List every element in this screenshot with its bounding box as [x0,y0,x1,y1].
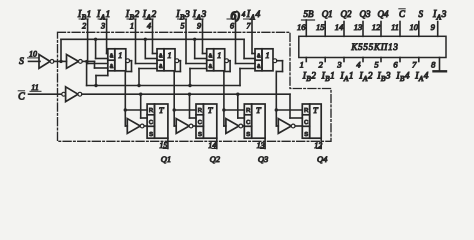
wire C input [29,93,62,95]
wire S branch ch1 [94,71,108,87]
svg-text:1: 1 [217,50,221,60]
RS latch DD2.4 [302,104,321,138]
svg-text:R: R [149,108,153,114]
label Q2 [341,9,352,19]
wire R stub ch4 [276,109,302,111]
wire Y output zigzag ch3 [224,61,230,110]
pin 10 number [410,22,419,32]
RS latch DD2.2 [196,104,217,138]
label IА4 bottom [414,71,428,83]
svg-text:R: R [198,108,202,114]
junction S-bar [59,60,62,63]
label IВ2 [125,9,140,21]
wire S input stub ch1 [144,125,147,127]
svg-text:&: & [209,53,213,59]
IC boundary dash-dot frame [58,32,332,141]
label Q2 [210,154,221,164]
svg-text:3: 3 [336,60,341,70]
svg-text:C: C [18,92,25,103]
pin 14 number [208,141,216,150]
svg-text:1: 1 [118,50,122,60]
svg-text:14: 14 [208,141,216,150]
pin 9 number [197,21,201,30]
svg-text:&: & [110,53,114,59]
svg-text:&: & [159,64,163,70]
svg-text:15: 15 [159,141,167,150]
input C-bar label [18,91,25,103]
wire S branch ch2 [137,69,157,88]
pin 16 number [297,22,306,32]
pin 15 number [316,22,325,32]
wire S-bar node [54,60,67,62]
svg-text:C: C [304,120,308,126]
wire Q1 output to pin 15 [163,138,168,148]
pin 13 number [257,141,265,150]
svg-text:&: & [159,53,163,59]
wire bus S (H2) y=85.5 [87,85,240,87]
svg-text:8: 8 [431,60,436,70]
svg-text:C: C [149,120,153,126]
svg-text:4: 4 [242,11,246,19]
pin 7 number [247,21,252,30]
AOI gate DD1.4 [255,49,277,71]
svg-text:C: C [399,9,406,19]
wire Q3 output to pin 13 [260,138,265,148]
svg-text:S: S [19,57,24,67]
wire C branch ch1 [139,93,147,119]
inverter S first [39,55,54,69]
svg-text:S: S [198,132,202,138]
pin 10 number [28,50,39,59]
pin 12 number [372,22,381,32]
pin 3 number [336,60,341,70]
input line pin 4 [144,19,157,54]
label IВ3 bottom [376,71,390,83]
svg-text:Q4: Q4 [317,154,328,164]
svg-text:R: R [246,108,250,114]
pin 5 number [374,60,378,70]
wire inverter feed ch1 [125,110,127,126]
svg-text:&: & [110,64,114,70]
package pin 13 lead [362,22,364,37]
svg-text:5: 5 [181,21,185,30]
svg-text:16: 16 [297,22,306,32]
package pin 7 lead [418,58,420,62]
wire C branch ch3 [236,93,244,119]
wire S branch ch4 [240,69,255,86]
label IВ3 [175,9,190,21]
wire S input stub ch4 [295,125,302,127]
package pin 3 lead [343,58,345,62]
wire S input stub ch2 [193,125,196,127]
svg-text:1: 1 [265,50,269,60]
wire R stub ch3 [224,109,244,111]
pin 4 number [147,21,151,30]
wire inverter feed ch3 [224,110,226,126]
AOI gate DD1.1 [108,49,130,71]
label Q1 [322,9,333,19]
junction Y/R ch1 [124,108,127,111]
svg-text:9: 9 [197,21,201,30]
wire inverter feed ch4 [276,110,278,126]
pin 2 number [319,60,324,70]
label IВ1 [77,9,91,21]
package pin 5 lead [380,58,382,62]
svg-text:5: 5 [374,60,378,70]
svg-text:3: 3 [100,21,105,30]
svg-text:Q3: Q3 [258,154,268,164]
label IВ2 bottom [302,71,316,83]
figure label b) [231,9,246,23]
wire S-bar branch ch2 [144,38,157,59]
RS latch DD2.1 [147,104,168,138]
wire S-bar branch ch1 [94,38,108,59]
svg-text:S: S [419,9,424,19]
svg-text:S: S [246,132,250,138]
svg-text:2: 2 [82,21,86,30]
package pin 12 lead [380,22,382,37]
input line pin 1 [127,19,157,64]
inverter ch4 [278,119,295,134]
package pin 11 lead [399,22,401,37]
svg-text:&: & [257,53,261,59]
svg-text:4: 4 [147,21,151,30]
svg-text:Q3: Q3 [360,9,371,19]
wire Q2 output to pin 14 [212,138,217,148]
pin 2 number [82,21,86,30]
svg-text:б): б) [231,9,241,23]
svg-text:5В: 5В [304,9,315,19]
junction Y/R ch4 [275,108,278,111]
wire Y output zigzag ch2 [174,61,180,110]
wire Y output zigzag ch1 [125,61,131,110]
inverter ch1 [127,119,144,134]
svg-text:10: 10 [29,50,37,59]
wire R stub ch1 [125,109,147,111]
label IА3 [192,9,207,21]
wire C branch ch2 [188,93,196,119]
pin 14 number [335,22,344,32]
svg-text:R: R [304,108,308,114]
package pin 2 lead [324,58,326,62]
label IА2 [142,9,157,21]
pin 15 number [159,141,167,150]
svg-text:12: 12 [314,141,322,150]
label S [419,9,424,19]
svg-text:11: 11 [31,83,38,92]
wire S branch ch3 [188,69,206,88]
svg-text:1: 1 [300,60,304,70]
label Q3 [360,9,371,19]
wire R stub ch2 [174,109,196,111]
input line pin 6 [227,19,255,64]
package pin 10 lead [418,22,420,37]
svg-text:1: 1 [130,21,134,30]
label IА4 [246,9,261,21]
wire Y output zigzag ch4 [276,61,282,110]
wire S-bar branch ch3 [193,38,207,59]
svg-text:14: 14 [335,22,344,32]
label Q1 [161,154,171,164]
package pin 15 lead [324,22,326,37]
svg-text:Q1: Q1 [322,9,333,19]
junction Y/R ch2 [173,108,176,111]
IC package K555KP13 body [299,36,446,57]
RS latch DD2.3 [244,104,265,138]
package pin 14 lead [343,22,345,37]
svg-text:1: 1 [167,50,171,60]
package pin 9 lead [437,22,439,37]
svg-text:2: 2 [319,60,324,70]
svg-text:11: 11 [391,22,399,32]
wire S-bar rise to bus [60,39,62,61]
input line pin 5 [178,19,207,64]
svg-text:12: 12 [372,22,381,32]
label IА1 [96,9,110,21]
svg-text:7: 7 [412,60,417,70]
wire C branch ch4 [290,94,302,118]
pin 11 number [391,22,399,32]
wire bus C (H3) y=94.2 [82,93,290,95]
input S label [19,57,24,67]
svg-text:S: S [149,132,153,138]
pin 1 number [300,60,304,70]
wire S into gate 1 [95,61,108,68]
power 5V label [302,9,315,20]
package pin 6 lead [399,58,401,62]
label IА1 bottom [339,71,353,83]
label C-bar [399,9,406,19]
pin 6 number [393,60,398,70]
wire S-bar branch ch4 [244,39,255,58]
wire Q4 output to pin 12 [316,138,321,148]
label IA3 top [432,9,447,21]
inverter ch2 [176,119,193,134]
wire S to distribution [82,61,94,85]
pin 1 number [130,21,134,30]
svg-text:К555КП13: К555КП13 [350,42,398,52]
svg-text:10: 10 [410,22,419,32]
wire S input stub ch3 [243,125,245,127]
pin 13 number [354,22,363,32]
label IА2 bottom [358,71,372,83]
wire S input [29,60,41,62]
package pin 16 lead [305,20,307,36]
input line pin 9 [194,19,207,54]
pin 3 number [100,21,105,30]
label Q4 [378,9,389,19]
pin 12 number [314,141,322,150]
pin 6 number [230,21,234,30]
label IВ1 bottom [321,71,335,83]
pin 4 number [356,60,361,70]
label K555KP13 [350,42,398,52]
pin 11 number [30,83,41,92]
input line pin 3 [98,19,108,54]
inverter C with input bubble [62,87,82,102]
svg-text:9: 9 [431,22,436,32]
svg-text:Q2: Q2 [210,154,221,164]
pin 5 number [181,21,185,30]
inverter S second [67,55,83,69]
label Q4 [317,154,328,164]
svg-text:C: C [246,120,250,126]
svg-text:S: S [304,132,308,138]
svg-text:Q1: Q1 [161,154,171,164]
svg-text:6: 6 [230,21,234,30]
svg-text:13: 13 [354,22,363,32]
junction Y/R ch3 [222,108,225,111]
svg-text:&: & [209,64,213,70]
package pin 4 lead [362,58,364,62]
label IВ4 bottom [395,71,409,83]
svg-text:Q2: Q2 [341,9,352,19]
label Q3 [258,154,268,164]
wire bus S-bar (H1) y=40 [61,38,244,40]
pin 7 number [412,60,417,70]
input line pin 2 [79,19,108,64]
ground pin 8 [434,58,447,72]
package pin 1 lead [305,58,307,62]
svg-text:13: 13 [257,141,265,150]
AOI gate DD1.2 [157,49,179,71]
pin 9 number [431,22,436,32]
svg-text:15: 15 [316,22,325,32]
input line pin 7 [244,19,256,54]
wire inverter feed ch2 [174,110,176,126]
pin 8 number [431,60,436,70]
svg-text:Q4: Q4 [378,9,389,19]
svg-text:&: & [257,64,261,70]
svg-text:C: C [198,120,202,126]
inverter ch3 [226,119,243,134]
junction S node [85,60,88,63]
AOI gate DD1.3 [207,49,229,71]
